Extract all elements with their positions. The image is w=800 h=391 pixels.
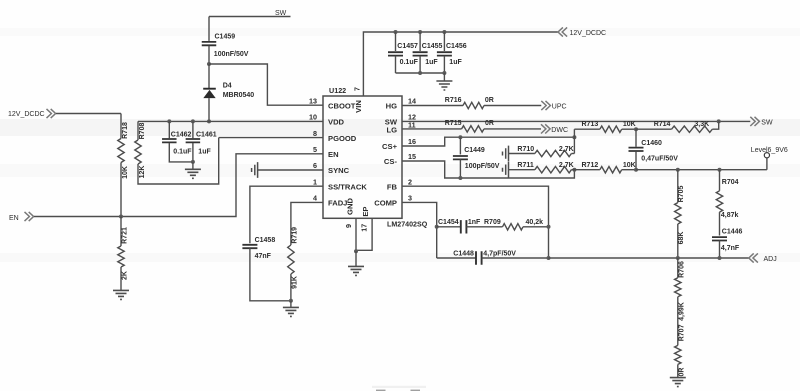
resistor R706 (677, 258, 679, 278)
scan artifact band (0, 119, 800, 136)
svg-text:1uF: 1uF (198, 149, 211, 156)
resistor R708 (137, 121, 139, 140)
svg-text:PGOOD: PGOOD (328, 134, 357, 143)
ground C1458/R719 (290, 301, 292, 307)
svg-text:R709: R709 (484, 219, 501, 226)
svg-text:VDD: VDD (328, 118, 345, 127)
wire to UPC (484, 105, 541, 107)
svg-text:CS-: CS- (384, 157, 398, 166)
svg-text:U122: U122 (329, 86, 346, 95)
svg-text:CS+: CS+ (382, 142, 398, 151)
svg-text:C1462: C1462 (171, 132, 192, 139)
svg-text:CBOOT: CBOOT (328, 101, 356, 110)
svg-text:UPC: UPC (552, 104, 567, 111)
ground SYNC (252, 162, 258, 178)
node C1455 bottom junction (418, 71, 422, 75)
net connector SW (750, 117, 759, 126)
node C1458/R719 junction (289, 299, 293, 303)
node C1455 junction (418, 30, 422, 34)
diode D4 (208, 64, 210, 89)
node R706 top junction (676, 256, 680, 260)
node D4/VDD junction (207, 119, 211, 123)
svg-text:C1458: C1458 (255, 237, 276, 244)
svg-text:0R: 0R (485, 97, 494, 104)
terminal Level6_9V6 (764, 153, 769, 158)
resistor R709 (503, 224, 524, 230)
svg-text:GND: GND (346, 198, 355, 215)
svg-text:10K: 10K (623, 162, 636, 169)
svg-text:4,7pF/50V: 4,7pF/50V (483, 250, 516, 257)
node C1456 junction (442, 30, 446, 34)
net connector DWC (541, 124, 550, 133)
svg-text:17: 17 (359, 224, 368, 232)
svg-text:R714: R714 (654, 121, 671, 128)
svg-text:9: 9 (344, 224, 353, 228)
svg-text:R715: R715 (445, 120, 462, 127)
resistor R719 (288, 245, 294, 274)
wire C1459 bottom (208, 46, 210, 64)
svg-text:FADJ: FADJ (328, 199, 347, 208)
svg-text:Level6_9V6: Level6_9V6 (751, 147, 788, 154)
svg-text:68K: 68K (678, 232, 685, 245)
net connector ADJ (749, 253, 758, 262)
scan artifact mark (376, 390, 386, 391)
wire ADJ rail (549, 257, 749, 259)
svg-text:LM27402SQ: LM27402SQ (387, 220, 428, 228)
resistor R715 (462, 126, 484, 132)
svg-text:0R: 0R (485, 120, 494, 127)
resistor R716 (463, 102, 484, 108)
resistor R721 (120, 217, 122, 247)
svg-text:VIN: VIN (354, 100, 363, 113)
svg-text:15: 15 (408, 152, 416, 161)
svg-text:R721: R721 (122, 227, 129, 244)
capacitor C1457 (395, 32, 397, 51)
node C1446 bottom junction (718, 256, 722, 260)
wire Vout rail (636, 158, 767, 170)
wire FB (402, 186, 549, 258)
wire cap bottoms (396, 72, 445, 74)
ground C1461/C1462 (192, 162, 194, 169)
svg-text:7: 7 (352, 87, 361, 91)
wire SS/TRACK (250, 186, 323, 243)
svg-text:12K: 12K (139, 166, 146, 179)
wire VDD rail (138, 120, 323, 122)
node SW label wire (209, 16, 291, 18)
capacitor C1460 (635, 129, 637, 147)
svg-text:R712: R712 (582, 162, 599, 169)
node FB/ADJ junction (547, 256, 551, 260)
node C1457 junction (394, 30, 398, 34)
resistor R713 (574, 128, 600, 130)
svg-text:HG: HG (386, 102, 397, 111)
wire to DWC (484, 128, 541, 130)
node C1449 bottom junction (458, 176, 462, 180)
node C1462 junction (167, 119, 171, 123)
svg-text:R704: R704 (722, 179, 739, 186)
svg-text:0,47uF/50V: 0,47uF/50V (641, 155, 678, 162)
wire R713 left vertical (573, 129, 575, 153)
capacitor C1461 (192, 121, 194, 138)
svg-text:C1461: C1461 (196, 132, 217, 139)
wire FADJ (291, 202, 323, 245)
svg-text:R711: R711 (517, 162, 533, 169)
svg-text:R708: R708 (139, 123, 146, 140)
svg-text:4,99K: 4,99K (678, 302, 685, 321)
svg-text:10K: 10K (122, 166, 129, 179)
scan artifact band (0, 253, 800, 262)
svg-text:2,7K: 2,7K (559, 146, 574, 153)
wire PGOOD (219, 137, 323, 139)
svg-text:40,2k: 40,2k (526, 219, 544, 226)
svg-text:100nF/50V: 100nF/50V (214, 51, 249, 58)
node R704 top junction (718, 168, 722, 172)
capacitor C1446 (712, 237, 727, 240)
node R714/SW junction (717, 119, 721, 123)
svg-text:47nF: 47nF (255, 253, 272, 260)
svg-text:0R: 0R (678, 368, 685, 377)
scan artifact band (0, 164, 800, 177)
svg-text:SW: SW (761, 119, 773, 126)
node CS+/R713 junction (572, 135, 576, 139)
wire SW net (402, 120, 750, 122)
node R709/FB junction (547, 225, 551, 229)
svg-text:2K: 2K (122, 271, 129, 280)
net connector UPC (541, 101, 550, 110)
svg-text:4,87k: 4,87k (721, 212, 739, 219)
svg-text:EP: EP (361, 207, 370, 217)
svg-text:COMP: COMP (374, 199, 397, 208)
svg-text:12V_DCDC: 12V_DCDC (570, 30, 607, 37)
ground R711 (503, 162, 509, 178)
node C1460 bottom junction (634, 168, 638, 172)
svg-text:R705: R705 (678, 186, 685, 203)
svg-text:100pF/50V: 100pF/50V (465, 163, 500, 170)
wire 12V_DCDC (56, 113, 121, 115)
svg-text:14: 14 (408, 97, 416, 106)
wire VIN (363, 32, 558, 96)
svg-text:R706: R706 (678, 261, 685, 278)
ground U122 (355, 251, 357, 266)
ground top caps (443, 73, 445, 81)
capacitor C1448 (437, 257, 476, 259)
net connector 12V_DCDC top (558, 27, 567, 36)
svg-text:C1448: C1448 (453, 250, 474, 257)
svg-text:4,7nF: 4,7nF (721, 245, 740, 252)
svg-text:R716: R716 (445, 97, 462, 104)
wire SYNC (258, 169, 323, 171)
node R705 top junction (676, 168, 680, 172)
svg-text:C1449: C1449 (464, 147, 485, 154)
resistor R712 (571, 169, 600, 171)
svg-text:C1459: C1459 (215, 34, 236, 41)
node cap gnd junction (191, 160, 195, 164)
node GND/EP junction (354, 249, 358, 253)
svg-text:SW: SW (275, 10, 287, 17)
wire LG (402, 128, 462, 130)
svg-text:5: 5 (313, 145, 317, 154)
svg-text:EN: EN (328, 150, 339, 159)
node C1456 bottom junction (442, 71, 446, 75)
svg-text:1uF: 1uF (449, 59, 462, 66)
node CS-/R711/R712 junction (572, 168, 576, 172)
capacitor C1462 (168, 121, 170, 138)
svg-text:MBR0540: MBR0540 (223, 92, 255, 99)
op-amp U122 LM27402SQ body (323, 96, 402, 218)
svg-text:8: 8 (313, 129, 317, 138)
resistor R714 (636, 128, 672, 130)
svg-text:R707: R707 (678, 324, 685, 341)
node R721 junction (119, 215, 123, 219)
ground R710 (503, 146, 509, 162)
node C1449 top junction (458, 135, 462, 139)
capacitor C1455 (419, 32, 421, 51)
svg-text:2: 2 (408, 177, 412, 186)
svg-text:C1446: C1446 (722, 228, 743, 235)
capacitor C1458 (242, 245, 257, 248)
svg-text:13: 13 (309, 97, 317, 106)
svg-text:ADJ: ADJ (764, 256, 777, 263)
wire GND pin (355, 218, 357, 251)
resistor R704 (719, 170, 721, 191)
svg-text:DWC: DWC (551, 127, 568, 134)
svg-text:1: 1 (313, 177, 317, 186)
node COMP/C1454 junction (435, 225, 439, 229)
resistor R718 (120, 114, 122, 139)
svg-text:R719: R719 (291, 227, 298, 244)
svg-text:4: 4 (313, 194, 317, 203)
svg-text:1uF: 1uF (425, 59, 438, 66)
wire CS+ (402, 137, 574, 146)
svg-text:16: 16 (408, 137, 416, 146)
node C1460 top junction (634, 127, 638, 131)
svg-text:SS/TRACK: SS/TRACK (328, 182, 367, 191)
svg-text:3: 3 (408, 194, 412, 203)
wire CBOOT link (209, 64, 323, 105)
svg-text:SYNC: SYNC (328, 166, 350, 175)
svg-text:0.1uF: 0.1uF (400, 59, 419, 66)
svg-text:R713: R713 (582, 121, 599, 128)
resistor R705 (677, 170, 679, 203)
scan artifact band (0, 28, 800, 36)
svg-text:C1457: C1457 (397, 43, 418, 50)
svg-text:R710: R710 (517, 146, 534, 153)
svg-text:D4: D4 (223, 82, 232, 89)
svg-text:FB: FB (387, 182, 398, 191)
capacitor C1454 (437, 226, 461, 228)
ground R707 (670, 378, 686, 387)
svg-text:10: 10 (309, 113, 317, 122)
wire CS- (402, 161, 574, 178)
svg-text:10K: 10K (623, 121, 636, 128)
svg-text:C1460: C1460 (641, 140, 662, 147)
svg-text:EN: EN (9, 215, 19, 222)
capacitor C1456 (443, 32, 445, 51)
svg-text:6: 6 (313, 161, 317, 170)
capacitor C1449 (459, 137, 461, 154)
resistor R710 (509, 153, 535, 155)
svg-text:1nF: 1nF (468, 219, 481, 226)
svg-text:91K: 91K (291, 276, 298, 289)
svg-text:C1455: C1455 (422, 43, 443, 50)
svg-text:2,7K: 2,7K (559, 162, 574, 169)
capacitor C1459 (202, 42, 217, 45)
wire EN (34, 154, 323, 217)
svg-text:C1454: C1454 (438, 219, 459, 226)
svg-text:0.1uF: 0.1uF (173, 149, 192, 156)
node CBOOT junction (207, 62, 211, 66)
wire COMP (402, 202, 437, 258)
resistor R711 (509, 169, 535, 171)
svg-text:R718: R718 (122, 122, 129, 139)
wire HG (402, 105, 463, 107)
svg-text:C1456: C1456 (446, 43, 467, 50)
svg-text:3,3K: 3,3K (694, 121, 709, 128)
node C1461 junction (191, 119, 195, 123)
resistor R707 (675, 345, 681, 364)
wire EP pin (356, 218, 372, 250)
wire C1459 top (208, 17, 210, 41)
svg-text:LG: LG (386, 125, 397, 134)
ground R721 (113, 290, 129, 299)
svg-text:12V_DCDC: 12V_DCDC (8, 111, 45, 118)
